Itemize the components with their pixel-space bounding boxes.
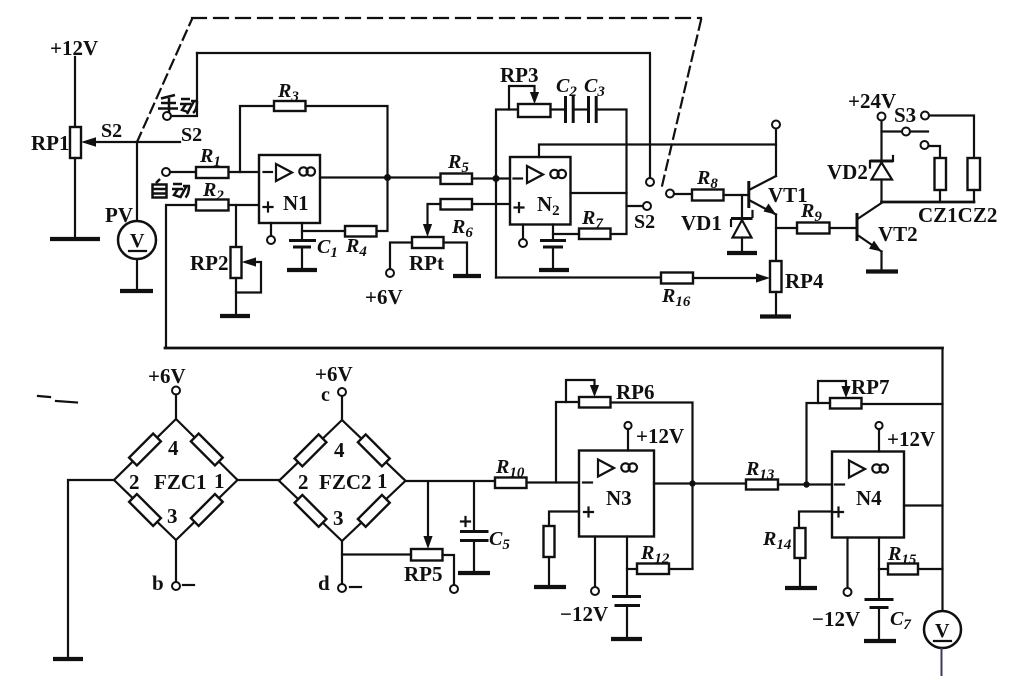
svg-text:CZ1CZ2: CZ1CZ2 xyxy=(918,203,997,227)
ground C6 xyxy=(611,637,642,641)
svg-text:V: V xyxy=(130,230,145,252)
wire RPt left to +6V terminal xyxy=(390,243,412,270)
svg-text:V: V xyxy=(935,620,950,642)
svg-text:2: 2 xyxy=(129,470,140,494)
op-amp N3 xyxy=(579,451,654,537)
wire R15 right xyxy=(918,568,943,570)
wire RP6 left to N3 input xyxy=(556,402,579,483)
wire FZC1 right to FZC2 left xyxy=(238,479,280,481)
svg-text:4: 4 xyxy=(168,436,179,460)
ground RPt xyxy=(453,274,481,278)
wire FZC2 right to R10 xyxy=(406,480,496,482)
wire R3 to output node xyxy=(306,106,388,174)
contact S2 right pole xyxy=(666,190,674,198)
wire top rail to right S2 contact xyxy=(197,53,650,178)
potentiometer RP1 xyxy=(70,127,81,158)
potentiometer RP2 xyxy=(231,247,242,278)
wire S2 pole stub xyxy=(137,141,180,143)
svg-text:4: 4 xyxy=(334,438,345,462)
resistor R11 xyxy=(544,526,555,557)
wire +24V node to S3 pole xyxy=(882,130,902,132)
ground C1 xyxy=(287,268,317,272)
terminal +24V xyxy=(878,113,886,121)
wire C2 to C3 xyxy=(575,108,588,110)
wire FZC1 bottom to terminal b xyxy=(175,540,177,582)
FZC1 arm resistor 4 xyxy=(191,494,223,526)
svg-text:FZC2: FZC2 xyxy=(319,470,372,494)
bridge FZC1 xyxy=(114,419,238,540)
svg-text:3: 3 xyxy=(167,504,178,528)
wire R1 to N1 inverting input xyxy=(229,171,260,173)
resistor R9 xyxy=(797,223,830,234)
wire R12 right xyxy=(669,568,693,570)
pin terminal N4 xyxy=(846,538,848,589)
wire VT1 emitter to R9 xyxy=(776,227,797,229)
capacitor C7 xyxy=(865,538,894,640)
capacitor C2 xyxy=(566,96,574,123)
svg-text:RP1: RP1 xyxy=(31,131,70,155)
potentiometer RP3 xyxy=(518,104,551,117)
resistor R12 xyxy=(637,564,669,575)
svg-text:−12V: −12V xyxy=(812,607,860,631)
terminal +6V RPt xyxy=(386,269,394,277)
bridge FZC2 xyxy=(279,420,406,541)
wire manual contact to top rail xyxy=(171,53,197,116)
svg-text:3: 3 xyxy=(333,506,344,530)
svg-text:S2: S2 xyxy=(101,120,122,142)
diode VD1 zener xyxy=(731,211,753,238)
wire N1 output xyxy=(320,176,441,178)
wire RP5 right to terminal xyxy=(443,555,455,585)
svg-text:VD2: VD2 xyxy=(827,160,868,184)
terminal VT1 collector xyxy=(772,121,780,129)
FZC2 arm resistor 4 xyxy=(358,495,390,527)
wire N2 top pin to VT1 collector rail xyxy=(539,145,776,158)
wire node to R16 rail xyxy=(495,179,497,278)
ground bridge xyxy=(53,657,83,661)
voltmeter PV xyxy=(118,221,156,259)
wire R14 to ground xyxy=(799,558,801,586)
wire N4 plus input to R14 xyxy=(799,512,832,529)
pin terminal N3 xyxy=(594,537,596,588)
pin terminal N2 xyxy=(522,225,524,240)
svg-text:N4: N4 xyxy=(856,486,882,510)
wire node to C5 xyxy=(473,482,475,531)
ground VT2 xyxy=(866,269,898,273)
svg-text:1: 1 xyxy=(377,469,388,493)
wire S2 junction to PV xyxy=(136,142,138,221)
wire VD2 to emitter rail xyxy=(880,180,882,203)
node N1 output xyxy=(384,174,391,181)
node N3 output xyxy=(689,480,695,486)
wire RP3 to C2 xyxy=(551,108,565,110)
wire FZC2 bottom to terminal d xyxy=(341,541,343,584)
ground R11 xyxy=(534,585,566,589)
wire auto contact to R1 xyxy=(170,171,196,173)
ground N2 cap xyxy=(539,268,569,272)
terminal d xyxy=(338,584,346,592)
svg-text:VT2: VT2 xyxy=(878,222,918,246)
minus sign d xyxy=(350,586,361,588)
RP3 wiper loop xyxy=(509,86,535,110)
terminal c xyxy=(338,388,346,396)
contact auto circle xyxy=(162,168,170,176)
resistor R16 xyxy=(661,273,693,284)
wire +12V to RP1 xyxy=(74,57,76,127)
load CZ1 xyxy=(935,158,947,190)
wire R11 to ground xyxy=(548,557,550,585)
load CZ2 xyxy=(968,158,981,190)
wire RP4 to ground xyxy=(775,292,777,315)
transistor VT1 xyxy=(749,176,776,215)
op-amp N2 xyxy=(510,157,571,225)
wire S3 lower to CZ1 xyxy=(929,146,941,158)
wire R6 to RPt wiper xyxy=(428,204,441,228)
wire RP7 left to N4 input xyxy=(807,403,831,485)
op-amp N4 xyxy=(832,452,904,538)
resistor R3 xyxy=(274,101,306,111)
potentiometer RP7 xyxy=(830,398,862,409)
ground RP4 xyxy=(760,314,791,318)
wire RP3 left to node xyxy=(496,110,518,179)
wire S2 lower contact to feedback vertical xyxy=(627,205,644,207)
contact S3 pole xyxy=(902,128,910,136)
resistor R5 xyxy=(441,174,473,185)
svg-text:c: c xyxy=(321,384,330,406)
svg-text:RP6: RP6 xyxy=(616,380,655,404)
RP2 wiper arrow loop xyxy=(236,262,261,293)
wire VD1 to ground xyxy=(741,238,743,252)
wire R16 rail xyxy=(496,276,661,278)
resistor R8 xyxy=(692,190,724,201)
resistor R14 xyxy=(795,528,806,558)
op-amp N1 xyxy=(259,155,320,223)
manual label (shou dong) xyxy=(158,95,198,115)
wire R13 to N4 inverting input xyxy=(778,483,832,485)
S2 mechanical linkage dashed left diagonal xyxy=(137,19,192,142)
wire RP7 right to output rail xyxy=(862,403,943,405)
wire FZC1 left to ground xyxy=(68,480,114,657)
terminal RP5 xyxy=(450,585,458,593)
svg-text:+6V: +6V xyxy=(315,362,353,386)
ground C5 xyxy=(458,571,490,575)
potentiometer RP6 xyxy=(579,397,611,408)
svg-text:RP2: RP2 xyxy=(190,251,229,275)
wire V meter tail xyxy=(941,648,943,676)
minus sign b xyxy=(183,584,194,586)
FZC2 arm resistor 3 xyxy=(295,495,327,527)
wire N3 output xyxy=(654,482,746,484)
RP7 wiper loop xyxy=(818,381,846,403)
wire R8 to VT1 base xyxy=(724,194,749,196)
wire PV to ground xyxy=(136,259,138,289)
svg-text:2: 2 xyxy=(298,470,309,494)
terminal +6V FZC1 xyxy=(172,387,180,395)
wire R10 to N3 inverting input xyxy=(527,481,580,483)
contact S2 right upper xyxy=(646,178,654,186)
ground R14 xyxy=(785,586,817,590)
ground RP1 xyxy=(50,237,100,241)
svg-text:1: 1 xyxy=(214,469,225,493)
wire base node to VD1 xyxy=(741,195,743,217)
svg-text:−12V: −12V xyxy=(560,602,608,626)
capacitor below N2 xyxy=(540,234,566,268)
resistor R1 xyxy=(196,167,229,178)
wire N2 output xyxy=(571,192,627,194)
wire feedback rail right vertical xyxy=(941,348,943,611)
resistor R15 xyxy=(888,564,918,575)
FZC2 arm resistor 2 xyxy=(358,434,390,466)
wire R7 to N2 bottom pin xyxy=(553,225,579,235)
potentiometer RP4 xyxy=(770,261,782,292)
stray mark left xyxy=(38,396,50,397)
svg-text:RP5: RP5 xyxy=(404,562,443,586)
wire S2 pole to R8 xyxy=(674,193,692,195)
svg-text:N1: N1 xyxy=(283,191,309,215)
wire R16 to RP4 wiper xyxy=(693,277,758,279)
wire VT1 collector up xyxy=(775,129,777,177)
FZC1 arm resistor 2 xyxy=(191,434,223,466)
RP6 wiper loop xyxy=(566,380,595,402)
diode VD2 zener xyxy=(870,156,893,180)
svg-text:+12V: +12V xyxy=(636,424,684,448)
wire R12 left xyxy=(627,568,637,570)
wire VT2 emitter to ground xyxy=(880,252,882,270)
node R5 N2 xyxy=(493,175,500,182)
svg-text:d: d xyxy=(318,571,330,595)
wire R15 left xyxy=(879,568,888,570)
resistor R6 xyxy=(441,199,473,210)
auto label (zi dong) xyxy=(153,179,191,198)
contact S2 right lower xyxy=(643,202,651,210)
wire VT1 emitter down to RP4 xyxy=(775,215,777,262)
wire N4 output xyxy=(904,504,943,506)
terminal b xyxy=(172,582,180,590)
wire R4 to N1 bottom pin xyxy=(302,223,345,231)
wire +24V to VD2 xyxy=(880,121,882,161)
svg-text:+6V: +6V xyxy=(365,285,403,309)
potentiometer RPt xyxy=(412,237,444,248)
FZC1 arm resistor 3 xyxy=(129,494,161,526)
svg-text:RPt: RPt xyxy=(409,251,444,275)
capacitor C6 N3 supply xyxy=(612,537,641,638)
svg-text:VD1: VD1 xyxy=(681,211,722,235)
svg-text:RP7: RP7 xyxy=(851,375,890,399)
wire RP2 to ground xyxy=(235,278,237,314)
capacitor C5 xyxy=(460,517,489,571)
contact S3 lower xyxy=(921,141,929,149)
svg-text:S2: S2 xyxy=(634,211,655,233)
wire R1 node to R3 xyxy=(240,106,274,172)
wire output node to R4 xyxy=(377,178,388,232)
+12V terminal N3 xyxy=(624,422,631,429)
potentiometer RP5 xyxy=(411,549,443,561)
wire N3 plus input to R11 xyxy=(549,512,579,527)
wire S3 upper to CZ2 xyxy=(929,116,974,159)
resistor R7 xyxy=(579,229,611,240)
wire collector rail CZ xyxy=(882,201,975,204)
wire S3 pole arm xyxy=(910,130,928,132)
svg-text:RP3: RP3 xyxy=(500,63,539,87)
wire main feedback bottom rail xyxy=(165,347,943,350)
wire CZ1 bottom xyxy=(939,190,941,202)
svg-text:+24V: +24V xyxy=(848,89,896,113)
ground VD1 xyxy=(727,251,757,255)
svg-text:RP4: RP4 xyxy=(785,269,824,293)
wire RP5 left to bridge bottom xyxy=(342,553,411,555)
svg-text:S3: S3 xyxy=(894,103,916,127)
wire feedback vertical to R7 xyxy=(611,193,627,234)
wire node to RP5 wiper xyxy=(427,482,429,539)
svg-text:+6V: +6V xyxy=(148,364,186,388)
wire R2 to N1 noninverting input xyxy=(229,204,260,206)
wire R5 to N2 inverting input xyxy=(472,177,510,179)
resistor R2 xyxy=(196,200,229,211)
capacitor C1 xyxy=(289,231,316,268)
wire RPt right to ground xyxy=(444,243,468,275)
pin terminal N1 xyxy=(270,223,272,236)
FZC2 arm resistor 1 xyxy=(295,434,327,466)
S2 mechanical linkage dashed top xyxy=(192,17,701,19)
wire R2 node to RP2 xyxy=(235,205,237,247)
transistor VT2 xyxy=(857,203,882,252)
ground C7 xyxy=(864,639,896,643)
S2 mechanical linkage dashed right diagonal xyxy=(662,20,701,186)
capacitor C3 xyxy=(589,96,597,123)
wire RP6 right to N3 output xyxy=(611,403,693,569)
contact S3 upper xyxy=(921,112,929,120)
wire to FZC1 top xyxy=(175,395,177,420)
wire RP1 to ground xyxy=(74,158,76,237)
wire feedback from bottom rail to R2 xyxy=(166,205,196,347)
svg-text:FZC1: FZC1 xyxy=(154,470,207,494)
wire R9 to VT2 base xyxy=(830,227,857,229)
wire CZ2 bottom xyxy=(973,190,975,202)
contact manual circle xyxy=(163,112,171,120)
svg-text:N3: N3 xyxy=(606,486,632,510)
+12V terminal N4 xyxy=(875,422,882,429)
resistor R13 xyxy=(746,480,778,490)
stray mark left 2 xyxy=(56,401,77,403)
resistor R4 xyxy=(345,226,377,237)
ground RP2 xyxy=(220,314,250,318)
svg-text:+12V: +12V xyxy=(887,427,935,451)
wire c to FZC2 top xyxy=(341,396,343,420)
ground PV xyxy=(120,289,153,293)
voltmeter V output xyxy=(924,611,961,648)
svg-text:b: b xyxy=(152,571,164,595)
wire R6 to N2 noninverting input xyxy=(472,203,510,205)
node R13 RP7 xyxy=(803,481,809,487)
svg-text:S2: S2 xyxy=(181,124,202,146)
wire C3 to feedback vertical xyxy=(598,110,627,194)
RP1 wiper arrow xyxy=(94,141,137,143)
FZC1 arm resistor 1 xyxy=(129,434,161,466)
resistor R10 xyxy=(495,478,527,489)
